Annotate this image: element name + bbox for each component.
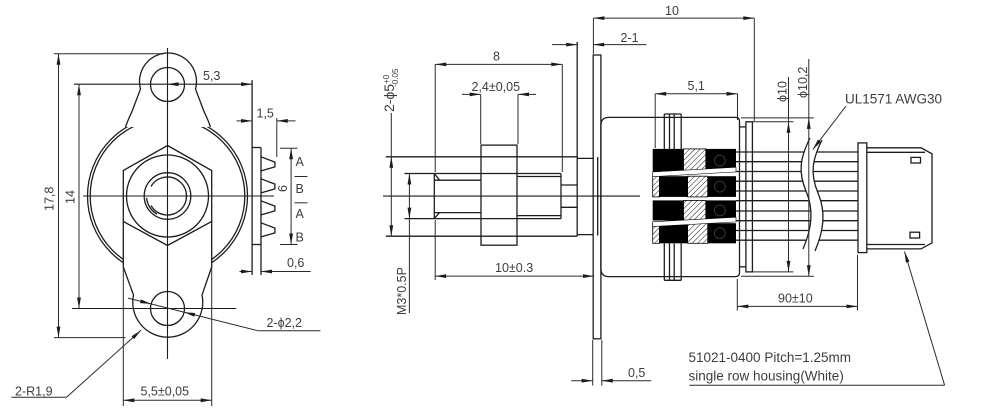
dim 10 ext right xyxy=(753,18,755,121)
dim 2-1 arrow right xyxy=(593,43,604,47)
winding row 1 xyxy=(653,149,684,172)
dim 0.6 line right xyxy=(261,271,311,273)
svg-text:0,5: 0,5 xyxy=(628,366,645,380)
dim 1.5 ext right xyxy=(276,118,278,157)
dim 10.3 arrow right xyxy=(583,274,594,278)
dim 1.5 arrow left xyxy=(241,119,252,123)
svg-text:2-ϕ2,2: 2-ϕ2,2 xyxy=(267,316,303,330)
svg-text:14: 14 xyxy=(64,190,78,204)
thread crest bottom line xyxy=(405,218,562,220)
bottom mounting ear outline xyxy=(123,222,211,338)
svg-text:A: A xyxy=(296,155,305,169)
winding row 3 xyxy=(653,200,684,220)
svg-text:ϕ10: ϕ10 xyxy=(776,81,790,102)
svg-text:2-R1,9: 2-R1,9 xyxy=(15,385,53,399)
connector latch window top xyxy=(911,157,921,163)
dim 2-1 arrow left xyxy=(566,43,577,47)
can end flange strip xyxy=(746,122,753,272)
side view centerline xyxy=(383,195,640,197)
side plate strip right edge xyxy=(260,148,262,276)
mounting plate (edge view) xyxy=(593,55,601,339)
dim 6 ext bottom xyxy=(280,244,298,246)
dim phi10 ext top xyxy=(748,121,793,123)
label 2-phi2.2 arrow right xyxy=(184,312,195,317)
dim 14 arrow bottom xyxy=(77,298,81,309)
dim 0.5 ext right xyxy=(601,340,603,386)
dim 5.3 arrow left xyxy=(168,82,179,86)
lead ribbon 1 xyxy=(653,167,736,177)
dim 6 arrow top xyxy=(289,148,293,159)
bottom hole horizontal centerline xyxy=(72,308,236,310)
svg-text:10: 10 xyxy=(665,4,679,18)
dim 2.4 arrow right xyxy=(518,93,529,97)
boss face / ext line xyxy=(576,42,578,236)
svg-text:5,1: 5,1 xyxy=(688,79,705,93)
dim phi10.2 ext bottom xyxy=(741,275,814,277)
dim 10.3 line xyxy=(435,275,594,277)
top hole horizontal centerline / dim 14+5.3 line xyxy=(74,83,252,85)
winding row 4 xyxy=(653,223,660,243)
svg-text:0,6: 0,6 xyxy=(287,256,304,270)
dim phi10 arrow top xyxy=(787,122,791,133)
dim 5.1 arrow left xyxy=(655,92,666,96)
vertical centerline xyxy=(167,48,169,359)
label 2-phi2.2 underline xyxy=(258,330,320,332)
wire length break curve right xyxy=(813,140,823,251)
dim phi10.2 arrow bottom xyxy=(807,265,811,276)
dim phi10 line xyxy=(788,77,790,272)
connector latch window bottom xyxy=(910,232,920,238)
thread root bottom line xyxy=(434,212,481,214)
connector body outline xyxy=(867,148,932,249)
top mounting ear outline xyxy=(126,53,211,127)
svg-text:10±0.3: 10±0.3 xyxy=(495,261,533,275)
dim phi10.2 ext top xyxy=(741,117,814,119)
label UL1571 arrow xyxy=(813,140,821,150)
top mounting ear (mask) xyxy=(126,53,211,127)
label 51021 leader xyxy=(905,252,945,386)
pinion outer circle xyxy=(127,155,209,237)
dim 0.6 arrow right xyxy=(261,270,272,274)
thread root top line xyxy=(434,179,481,181)
dim 5.1 arrow right xyxy=(727,92,738,96)
bushing step face xyxy=(560,174,562,219)
svg-text:5,3: 5,3 xyxy=(203,69,220,83)
dim phi10.2 line xyxy=(808,59,810,276)
dim 5.5 ext left xyxy=(122,267,124,406)
svg-text:2-1: 2-1 xyxy=(621,31,639,45)
svg-text:8: 8 xyxy=(493,50,500,64)
dim 90 arrow left xyxy=(737,305,748,309)
wire break white band xyxy=(801,138,823,251)
thread crest top line xyxy=(405,173,562,175)
svg-text:5,5±0,05: 5,5±0,05 xyxy=(141,385,190,399)
label 51021 underline xyxy=(689,384,944,386)
dim 1.5 line left xyxy=(237,120,253,122)
stub shaft bottom line xyxy=(561,206,577,208)
dim 10 arrow left xyxy=(593,16,604,20)
svg-text:6: 6 xyxy=(276,185,290,192)
dim phi10 arrow bottom xyxy=(787,261,791,272)
motor body outer circle (front view) xyxy=(88,116,248,276)
dim 5.5 line xyxy=(123,399,211,401)
dim M3 arrow top xyxy=(408,174,412,185)
dim 1.5 arrow right xyxy=(277,119,288,123)
can-to-flange tick bottom xyxy=(740,266,746,268)
connector flange xyxy=(858,143,867,253)
dim 2-1 line left xyxy=(552,44,577,46)
gear rectangle xyxy=(481,145,517,245)
dim 1.5 line right xyxy=(277,120,296,122)
phi5 journal top line xyxy=(386,156,577,158)
top mounting hole 2.2 dia xyxy=(151,68,185,102)
bushing top line xyxy=(517,176,561,178)
hex nut outline xyxy=(123,146,211,246)
label 2-R1.9 underline xyxy=(11,396,66,398)
label 2-R1.9 arrow xyxy=(132,330,141,339)
svg-text:B: B xyxy=(296,182,304,196)
svg-text:single row housing(White): single row housing(White) xyxy=(689,369,844,384)
dim 90 arrow right xyxy=(847,305,858,309)
label UL1571 leader xyxy=(813,106,846,150)
side plate strip bottom edge xyxy=(252,244,261,246)
dim 5.1 ext left xyxy=(654,94,656,148)
dim 0.5 line left xyxy=(571,380,593,382)
dim 0.6 arrow left xyxy=(241,270,252,274)
svg-text:M3*0.5P: M3*0.5P xyxy=(395,267,409,315)
dim 5.5 arrow left xyxy=(123,398,134,402)
dim 6 arrow bottom xyxy=(289,234,293,245)
svg-text:90±10: 90±10 xyxy=(778,292,813,306)
dim 0.5 line right xyxy=(602,380,651,382)
dim 5.3 arrow right xyxy=(241,82,252,86)
dim 2.4 line left xyxy=(462,93,481,95)
boss bottom line xyxy=(577,234,593,236)
label 51021 arrow xyxy=(905,252,910,263)
dim 17.8 arrow top xyxy=(57,54,61,65)
dim 10.3 ext left xyxy=(434,220,436,280)
dim 2-phi5 arrow top xyxy=(389,157,393,168)
motor body inner circle (front view) xyxy=(90,119,245,274)
dim 6 line xyxy=(290,148,292,244)
label 2-phi2.2 arrow left xyxy=(140,299,151,304)
bearing bore line behind plate xyxy=(597,157,599,236)
svg-text:A: A xyxy=(296,207,305,221)
spur arc at lower-left of shaft circle xyxy=(147,198,157,214)
dim phi10 ext bottom xyxy=(748,271,793,273)
dim 17.8 ext bottom xyxy=(54,337,126,339)
svg-text:B: B xyxy=(296,231,304,245)
dim 90 ext left xyxy=(736,279,738,311)
lead ribbon 2 xyxy=(653,217,736,226)
dim 5.5 arrow right xyxy=(201,398,212,402)
dim 17.8 line xyxy=(58,54,60,338)
dim 5.1 ext right xyxy=(737,94,739,120)
dim 10 arrow right xyxy=(743,16,754,20)
shaft end chamfer bottom xyxy=(434,213,439,219)
dim 0.5 arrow left xyxy=(582,379,593,383)
shaft inner arc (open at left) xyxy=(151,177,186,215)
phase label B1 overline xyxy=(295,176,308,178)
dim 14 line xyxy=(78,84,80,308)
svg-text:2,4±0,05: 2,4±0,05 xyxy=(472,80,521,94)
dim 8 ext right xyxy=(561,64,563,172)
dim 5.5 ext right xyxy=(211,267,213,406)
side plate strip left edge / ext line xyxy=(251,80,253,275)
shaft end face xyxy=(433,174,435,219)
dim 14 arrow top xyxy=(77,84,81,95)
side plate strip top edge xyxy=(252,147,261,149)
dim 17.8 arrow bottom xyxy=(57,327,61,338)
dim 5.1 line xyxy=(655,93,737,95)
dim 10 line xyxy=(593,17,754,19)
dim 0.6 line left xyxy=(240,271,253,273)
dim 10 ext left xyxy=(592,18,594,54)
dim 2.4 ext right xyxy=(517,94,519,144)
svg-text:1,5: 1,5 xyxy=(257,107,274,121)
dim 2-1 line right xyxy=(593,44,646,46)
stub shaft top line xyxy=(561,184,577,186)
stator pole strips (top) xyxy=(663,114,665,149)
connector inner top line xyxy=(867,151,925,153)
dim 90 line xyxy=(737,305,857,307)
terminal teeth (4 sawtooth contacts) xyxy=(261,157,275,171)
bottom mounting hole 2.2 dia xyxy=(151,292,185,326)
boss top line xyxy=(577,157,593,159)
svg-text:ϕ10,2: ϕ10,2 xyxy=(796,67,810,98)
svg-text:17,8: 17,8 xyxy=(43,187,57,211)
label 2-phi2.2 leader line xyxy=(128,298,258,331)
wire length break curve left xyxy=(801,138,811,249)
dim 90 ext right xyxy=(857,255,859,311)
dim 2.4 arrow left xyxy=(470,93,481,97)
dim 2-phi5 arrow bottom xyxy=(389,225,393,236)
dim 8 arrow left xyxy=(435,63,446,67)
dim 8 ext left xyxy=(434,64,436,172)
dim 17.8 ext top xyxy=(54,53,164,55)
horizontal centerline through body xyxy=(83,195,274,197)
bottom mounting ear (mask) xyxy=(123,222,211,338)
phase label A2 overline xyxy=(295,202,308,204)
connector inner bottom line xyxy=(867,244,925,246)
dim 0.5 arrow right xyxy=(602,379,613,383)
shaft circle xyxy=(144,173,191,220)
dim M3 arrow bottom xyxy=(408,208,412,219)
dim 2.4 line right xyxy=(518,93,536,95)
lead wires (5 wires to connector) xyxy=(736,151,858,153)
stator pole strips (bottom) xyxy=(663,243,665,280)
label 2-R1.9 leader xyxy=(67,330,142,397)
dim 2.4 ext left xyxy=(480,94,482,144)
dim 0.5 ext left xyxy=(592,340,594,386)
winding row 2 xyxy=(653,176,660,197)
dim 8 line xyxy=(435,63,562,65)
dim 6 ext top xyxy=(280,147,298,149)
svg-text:51021-0400 Pitch=1.25mm: 51021-0400 Pitch=1.25mm xyxy=(689,350,851,365)
phi5 journal bottom line xyxy=(386,235,577,237)
dim 2-phi5 line xyxy=(390,113,392,236)
dim phi10.2 arrow top xyxy=(807,118,811,129)
svg-text:UL1571 AWG30: UL1571 AWG30 xyxy=(845,92,942,107)
dim 10.3 arrow left xyxy=(435,274,446,278)
dim M3 line xyxy=(408,174,410,314)
bushing bottom line xyxy=(517,215,561,217)
dim 8 arrow right xyxy=(551,63,562,67)
motor can outline xyxy=(601,117,740,276)
can-to-flange tick top xyxy=(740,126,746,128)
shaft end chamfer top xyxy=(434,174,439,181)
